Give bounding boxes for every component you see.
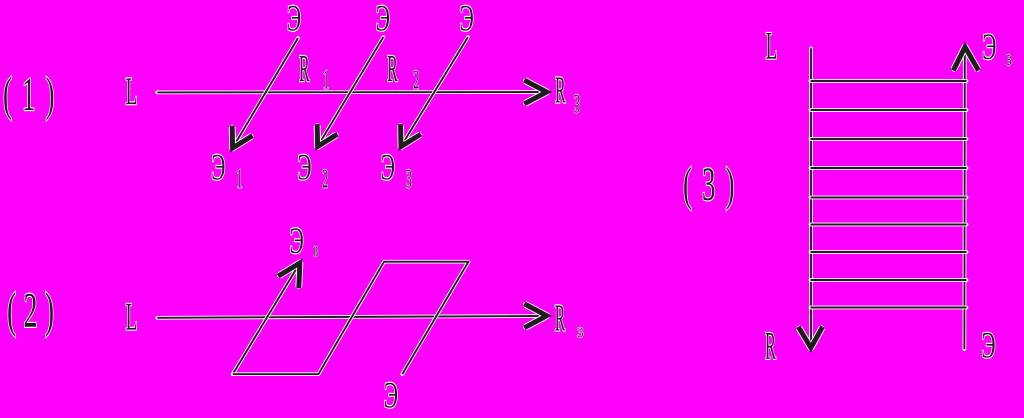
arrow up right rail xyxy=(954,47,977,68)
svg-text:Э: Э xyxy=(290,220,304,262)
label Э top3 xyxy=(460,0,474,39)
node R ladder xyxy=(765,324,776,367)
ray Э1 diagonal xyxy=(234,38,298,146)
arrowhead Э2 xyxy=(317,127,335,147)
ladder right rail xyxy=(963,50,967,349)
svg-text:Э: Э xyxy=(460,0,474,39)
svg-text:2: 2 xyxy=(413,64,419,95)
svg-text:( 1 ): ( 1 ) xyxy=(3,68,56,121)
node L line2 xyxy=(126,295,138,338)
ray Э3 diagonal xyxy=(402,37,468,144)
svg-text:2: 2 xyxy=(322,163,328,194)
svg-text:Э: Э xyxy=(981,325,995,367)
label R1 xyxy=(299,48,310,90)
label Э2 bottom xyxy=(297,146,311,188)
arrow to R3 xyxy=(526,81,546,103)
node L ladder xyxy=(766,24,778,67)
wire L to R line2 xyxy=(157,316,543,318)
arrowhead Э1 xyxy=(232,128,250,148)
svg-text:1: 1 xyxy=(237,163,243,194)
label R line2 xyxy=(555,298,566,340)
svg-text:R: R xyxy=(387,48,398,90)
ladder rung 3 xyxy=(811,137,967,141)
label (3) xyxy=(683,158,736,211)
label Э1 bottom xyxy=(211,146,225,188)
label Э_v ladder top xyxy=(982,26,996,68)
svg-text:L: L xyxy=(766,24,778,67)
svg-text:L: L xyxy=(126,295,138,338)
arrow to R line2 xyxy=(527,305,547,327)
svg-text:3: 3 xyxy=(574,88,580,119)
ladder rung 7 xyxy=(811,250,967,254)
label Э top1 xyxy=(287,0,301,39)
label R2 xyxy=(387,48,398,90)
label Э3 bottom xyxy=(381,146,395,188)
label Э ladder bottom xyxy=(981,325,995,367)
ladder rung 9 xyxy=(811,306,967,310)
label Э top2 xyxy=(376,0,390,39)
svg-text:1: 1 xyxy=(323,64,329,95)
coil loop path xyxy=(233,262,469,375)
label (1) xyxy=(3,68,56,121)
svg-text:Э: Э xyxy=(297,146,311,188)
svg-text:( 2 ): ( 2 ) xyxy=(7,282,54,338)
ladder left rail xyxy=(809,48,813,344)
svg-text:R: R xyxy=(555,298,566,340)
label R3 xyxy=(555,70,566,112)
ladder rung 1 xyxy=(811,79,967,83)
svg-text:Э: Э xyxy=(287,0,301,39)
svg-text:Э: Э xyxy=(376,0,390,39)
svg-text:R: R xyxy=(765,324,776,367)
label Э coil end xyxy=(384,374,398,416)
ladder rung 6 xyxy=(811,223,967,227)
label Э_v top coil xyxy=(290,220,304,262)
wire L to R3 line1 xyxy=(157,90,543,94)
svg-text:Э: Э xyxy=(211,146,225,188)
arrowhead Э3 xyxy=(401,127,419,147)
svg-text:3: 3 xyxy=(577,325,583,341)
ladder rung 5 xyxy=(811,196,967,200)
label (2) xyxy=(7,282,54,338)
svg-text:R: R xyxy=(555,70,566,112)
arrow down left rail xyxy=(800,329,822,348)
ray Э2 diagonal xyxy=(319,37,383,144)
ladder rung 2 xyxy=(811,108,967,112)
svg-text:в: в xyxy=(1007,46,1012,71)
ladder rung 8 xyxy=(811,278,967,282)
svg-text:Э: Э xyxy=(381,146,395,188)
svg-text:в: в xyxy=(314,237,318,262)
ladder rung 4 xyxy=(811,166,967,170)
svg-text:Э: Э xyxy=(982,26,996,68)
svg-text:L: L xyxy=(126,70,138,113)
svg-text:( 3 ): ( 3 ) xyxy=(683,158,736,211)
arrowhead EMF up xyxy=(280,263,300,286)
coil left diagonal with EMF arrow xyxy=(233,269,297,375)
svg-text:Э: Э xyxy=(384,374,398,413)
node L line1 xyxy=(126,70,138,113)
svg-text:R: R xyxy=(299,48,310,90)
svg-text:3: 3 xyxy=(406,163,412,194)
